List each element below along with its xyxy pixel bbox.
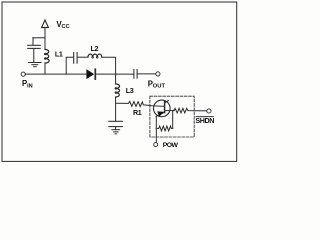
terminal SHDN [207, 109, 211, 113]
inductor L2 [88, 54, 102, 58]
wire main line left [25, 73, 87, 75]
terminal P_IN [21, 72, 25, 76]
inductor L3 [115, 74, 119, 97]
svg-text:L3: L3 [126, 86, 134, 95]
power VCC [42, 20, 49, 38]
wire upper branch left [66, 57, 73, 74]
inductor L1 [45, 38, 50, 74]
border frame [2, 2, 237, 161]
wire top horizontal [33, 37, 45, 39]
svg-text:L2: L2 [91, 44, 99, 53]
svg-text:POW: POW [163, 142, 179, 149]
ground (under C3) [112, 130, 120, 134]
resistor R1 [116, 101, 151, 106]
diode D1 [86, 69, 133, 79]
resistor R2 (emitter-collector, in box) [156, 111, 172, 131]
svg-text:R1: R1 [133, 108, 142, 117]
resistor R3 (to SHDN) [174, 108, 207, 113]
capacitor C4 (series, output) [134, 69, 156, 78]
wire L3 bottom to cap [115, 97, 117, 121]
terminal P_OUT [156, 72, 160, 76]
svg-text:SHDN: SHDN [195, 116, 214, 125]
ground (under C1) [29, 63, 41, 67]
wire upper branch right [102, 57, 116, 74]
dashed box [150, 96, 194, 137]
capacitor C1 (bypass) [28, 38, 40, 63]
capacitor C3 (to ground) [109, 121, 123, 129]
svg-text:L1: L1 [55, 50, 63, 59]
capacitor C2 (series, upper branch) [74, 53, 88, 64]
terminal POW [154, 143, 158, 147]
transistor Q1 [150, 100, 174, 143]
